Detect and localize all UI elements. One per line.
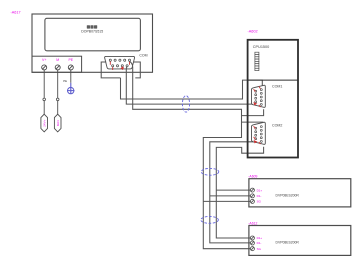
branch to module1 top terminal: [216, 189, 252, 191]
DB9 cable shell: [101, 62, 140, 78]
DB9 pins row 2: [112, 65, 129, 67]
COM1 connector: [252, 85, 266, 107]
svg-text:-A609: -A609: [248, 174, 257, 178]
svg-text:M24: M24: [56, 120, 60, 126]
svg-text:DVP08ES200R: DVP08ES200R: [276, 241, 300, 245]
svg-text:D1-: D1-: [257, 241, 262, 245]
screw terminal M: [55, 65, 60, 70]
wire W3: DB9 pin5 down to bus: [130, 61, 253, 249]
module 2 terminals: [250, 236, 254, 251]
earth symbol: [67, 83, 74, 94]
svg-text:SG: SG: [257, 200, 262, 204]
screw terminal PE: [68, 65, 73, 70]
branch to module1 middle terminal: [210, 195, 253, 197]
svg-text:COM1: COM1: [272, 84, 282, 88]
screw terminal V+: [42, 65, 47, 70]
wire B: COM2 pin to modules: [210, 142, 257, 243]
touchscreen U1 body: [32, 14, 153, 72]
shield marker ellipse 2: [201, 168, 219, 175]
node on M wire: [56, 98, 59, 101]
COM2 pins: [255, 126, 262, 143]
shield marker ellipse 3: [201, 217, 219, 224]
svg-text:PE: PE: [68, 58, 73, 62]
COM1 pins: [255, 89, 262, 106]
cable tag hexagon V+: [41, 114, 48, 132]
cable tag hexagon M: [54, 114, 61, 132]
CPU terminal strip: [255, 52, 259, 70]
red pin marks DB9: [110, 62, 129, 71]
svg-text:D1+: D1+: [257, 236, 263, 240]
PE wire: [70, 70, 72, 83]
label 触摸屏 (CJK glyph blobs): [87, 25, 97, 28]
branch to module1 bottom terminal: [203, 200, 252, 202]
svg-text:D1-: D1-: [257, 194, 262, 198]
svg-text:-A612: -A612: [248, 221, 257, 225]
svg-text:COM2: COM2: [272, 123, 282, 127]
shield marker ellipse 1: [182, 96, 189, 112]
wire W1 shield: shell to CPU divider: [121, 78, 263, 99]
svg-text:-A602: -A602: [248, 29, 258, 33]
bracket under COM1: [242, 109, 264, 115]
svg-text:V+: V+: [42, 58, 46, 62]
svg-text:COM: COM: [139, 54, 147, 58]
wire W2: DB9 pin to COM1 pin: [126, 67, 256, 105]
power terminal box: [32, 56, 82, 72]
module 2 box: [249, 226, 351, 256]
svg-text:DVP08ES200R: DVP08ES200R: [276, 193, 300, 197]
wire C: COM2 shell to modules: [216, 147, 263, 238]
stub to COM2 top: [242, 121, 264, 123]
svg-text:-A617: -A617: [11, 11, 21, 15]
svg-text:24V+: 24V+: [42, 119, 46, 126]
node on V+ wire: [43, 98, 46, 101]
COM2 red marks: [254, 126, 261, 144]
COM1 red marks: [254, 86, 261, 107]
touchscreen display screen: [45, 18, 140, 51]
svg-text:M: M: [56, 58, 59, 62]
COM2 connector: [252, 122, 266, 144]
svg-text:PE: PE: [63, 79, 67, 83]
CPU box: [248, 40, 298, 158]
wire from V+ down: [43, 70, 45, 115]
wire from M down: [57, 70, 59, 115]
svg-text:SG: SG: [257, 247, 262, 251]
module 1 box: [249, 179, 351, 207]
CPU divider: [248, 79, 298, 81]
DB9 connector face (touchscreen COM): [105, 56, 135, 69]
module 1 terminals: [250, 188, 254, 203]
svg-text:CPU1500: CPU1500: [253, 45, 269, 49]
DB9 pins row 1: [109, 59, 130, 61]
svg-text:D1+: D1+: [257, 188, 263, 192]
svg-text:DOPB07S515: DOPB07S515: [81, 29, 103, 33]
